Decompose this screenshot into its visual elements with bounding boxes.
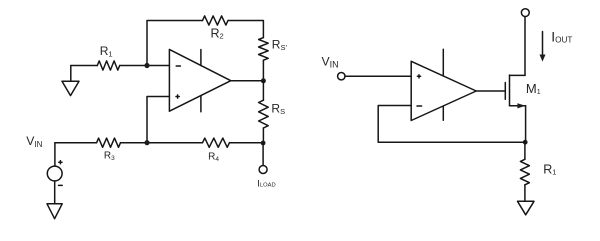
ground (left input) [62,66,79,96]
wire [228,21,263,38]
wire [262,60,264,81]
wire (output to gate) [476,90,505,92]
resistor R1 (right) [520,159,529,185]
op-amp U2 [411,49,476,120]
wire [231,80,264,82]
ground (right) [518,201,535,215]
wire [262,128,264,143]
wire (drain) [524,17,526,76]
ground (VIN source) [47,204,62,219]
svg-text:R3: R3 [104,151,115,162]
svg-text:R1: R1 [543,162,556,176]
node D (R3/R4 junction) [144,140,149,145]
node B (output node) [261,78,266,83]
resistor R4 [203,138,230,147]
wire [121,142,203,144]
wire [120,65,170,67]
wire [147,21,203,66]
wire [71,65,98,67]
terminal ILOAD [259,166,267,174]
svg-text:R4: R4 [208,151,219,162]
wire (noninverting input) [147,97,169,143]
svg-text:RS: RS [271,101,285,115]
svg-text:R2: R2 [211,26,224,40]
wire [55,142,97,144]
node E (source node) [523,140,528,145]
wire [524,185,526,202]
wire (source) [525,106,527,142]
svg-text:RS': RS' [272,38,288,52]
voltage source VIN [47,143,62,204]
svg-text:R1: R1 [100,44,113,58]
svg-text:M1: M1 [526,81,541,96]
resistor R2 [203,16,229,25]
op-amp U1 [169,49,230,111]
svg-text:VIN: VIN [26,134,42,149]
svg-text:VIN: VIN [322,54,339,69]
terminal IOUT [521,9,529,17]
resistor R3 [97,138,121,147]
resistor R1 [97,61,119,70]
wire [262,81,264,100]
wire [345,75,411,77]
arrow IOUT [540,32,546,62]
wire [230,142,264,144]
svg-text:ILOAD: ILOAD [257,178,275,189]
resistor RS' [259,38,269,61]
wire [524,142,526,159]
wire [262,143,264,165]
transistor M1 [505,75,525,108]
wire (feedback) [378,106,525,143]
resistor RS [259,100,269,128]
svg-text:IOUT: IOUT [551,28,572,44]
node C (load node) [261,141,266,146]
terminal VIN [338,73,345,80]
node A (inverting input junction) [144,63,149,68]
